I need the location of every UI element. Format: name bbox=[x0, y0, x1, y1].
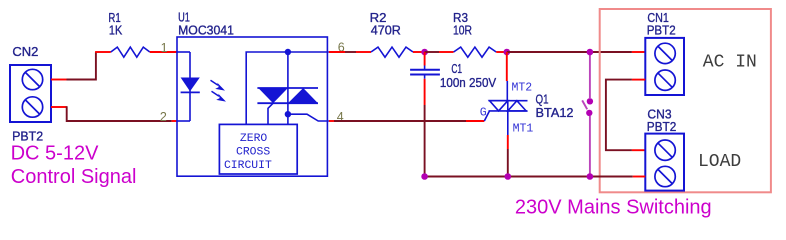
wire CN2 pin1 stub bbox=[51, 79, 67, 81]
wire net CN2.2 to U1 pin2 bbox=[67, 106, 172, 121]
resistor R1 bbox=[111, 47, 150, 57]
svg-text:LOAD: LOAD bbox=[698, 152, 741, 172]
wire CN2 pin2 stub bbox=[51, 106, 67, 108]
switch contact upper bbox=[587, 98, 593, 104]
svg-text:100n 250V: 100n 250V bbox=[440, 75, 497, 90]
wire net MT1 to rail bbox=[507, 149, 509, 177]
LED inside U1 bbox=[177, 52, 200, 121]
wire net C1 bottom to rail bbox=[424, 105, 426, 177]
wire MT1 drop bbox=[287, 103, 289, 124]
svg-text:G: G bbox=[480, 106, 487, 119]
svg-text:BTA12: BTA12 bbox=[536, 105, 574, 120]
wire CN1 pin2 stub bbox=[632, 79, 645, 81]
wire bottom rail bbox=[425, 176, 633, 178]
wire MT2 drop bbox=[287, 52, 289, 103]
resistor R2 bbox=[371, 47, 413, 57]
junction dot rail at Q1 bbox=[505, 173, 512, 180]
junction dot U1 rail bbox=[285, 49, 291, 55]
wire R2 left pin stub bbox=[356, 51, 371, 53]
switch lever bbox=[582, 100, 587, 109]
resistor R3 bbox=[454, 47, 497, 57]
U1 triac symbol bbox=[257, 88, 318, 103]
Q1 gate lead bbox=[484, 111, 489, 121]
wire CN3 pin2 stub bbox=[633, 176, 646, 178]
wire R3 right pin stub bbox=[496, 51, 507, 53]
svg-text:MT2: MT2 bbox=[512, 82, 533, 95]
photon arrow 1 bbox=[211, 80, 226, 90]
U1 gate wire to zero-cross bbox=[268, 103, 273, 124]
svg-text:CN2: CN2 bbox=[12, 44, 38, 59]
junction dot node Q1 MT2 bbox=[504, 49, 511, 56]
svg-text:1K: 1K bbox=[109, 23, 123, 38]
svg-text:PBT2: PBT2 bbox=[647, 119, 677, 134]
svg-text:230V Mains Switching: 230V Mains Switching bbox=[515, 197, 712, 219]
wire CN1 pin1 stub bbox=[632, 51, 645, 53]
svg-text:470R: 470R bbox=[371, 22, 401, 37]
wire net pin6 to R2 bbox=[345, 51, 356, 53]
capacitor C1 bottom lead bbox=[424, 75, 426, 79]
junction dot rail at C1 bbox=[421, 173, 428, 180]
capacitor C1 top lead bbox=[424, 52, 426, 66]
wire U1 pin4 stub bbox=[329, 120, 334, 122]
wire net CN1.2 to CN3.1 bbox=[606, 80, 632, 151]
wire R3 left pin stub bbox=[439, 51, 454, 53]
svg-text:MT1: MT1 bbox=[513, 123, 534, 136]
junction dot switch top net bbox=[587, 49, 594, 56]
svg-text:PBT2: PBT2 bbox=[12, 128, 43, 143]
wire net MT2 to CN1 bbox=[507, 51, 632, 53]
svg-text:DC 5-12V: DC 5-12V bbox=[11, 142, 99, 164]
svg-text:CROSS: CROSS bbox=[236, 147, 270, 159]
wire U1 pin6 stub bbox=[329, 51, 345, 53]
svg-text:10R: 10R bbox=[453, 22, 472, 37]
wire R1 left pin stub bbox=[95, 51, 111, 53]
wire R1 right pin to U1 pin1 bbox=[150, 51, 177, 53]
svg-text:CIRCUIT: CIRCUIT bbox=[224, 160, 272, 172]
switch symbol (mains) top lead bbox=[589, 52, 591, 98]
junction dot node C1 top bbox=[421, 49, 428, 56]
svg-text:ZERO: ZERO bbox=[240, 133, 268, 145]
wire Q1 MT2 lead bbox=[506, 52, 508, 81]
svg-text:MOC3041: MOC3041 bbox=[178, 23, 234, 38]
capacitor C1 bbox=[410, 70, 440, 75]
wire net pin4 to Q1 gate bbox=[334, 120, 466, 122]
junction dot rail at switch bbox=[587, 173, 594, 180]
photon arrow 2 bbox=[212, 91, 227, 101]
triac Q1 bbox=[489, 101, 528, 111]
zero cross circuit box bbox=[219, 124, 297, 174]
wire MT1 to pin4 bbox=[288, 114, 329, 121]
wire R2 right pin stub bbox=[413, 51, 425, 53]
switch bottom lead bbox=[589, 116, 591, 177]
wire Q1 MT1 lead bbox=[507, 111, 509, 135]
junction dot MT1 bbox=[285, 111, 291, 117]
svg-text:Control Signal: Control Signal bbox=[11, 166, 137, 188]
connector CN3 terminal block bbox=[645, 134, 684, 191]
svg-text:2: 2 bbox=[160, 110, 167, 124]
svg-text:PBT2: PBT2 bbox=[647, 22, 676, 37]
opto-triac U1 box bbox=[177, 37, 327, 176]
wire net C1 to R3 bbox=[425, 51, 439, 53]
mains zone box bbox=[600, 9, 771, 192]
svg-text:1: 1 bbox=[161, 41, 168, 55]
connector CN1 terminal block bbox=[645, 38, 684, 95]
connector CN2 terminal block bbox=[10, 65, 51, 122]
wire Q1 gate pin stub bbox=[466, 120, 484, 122]
wire U1 pin2 stub bbox=[172, 120, 177, 122]
switch contact lower bbox=[586, 110, 592, 116]
U1 photo-triac top rail bbox=[246, 52, 329, 124]
wire CN3 pin1 stub bbox=[632, 149, 645, 151]
svg-text:AC IN: AC IN bbox=[703, 53, 757, 73]
wire net CN2.1 to R1 bbox=[67, 52, 96, 80]
